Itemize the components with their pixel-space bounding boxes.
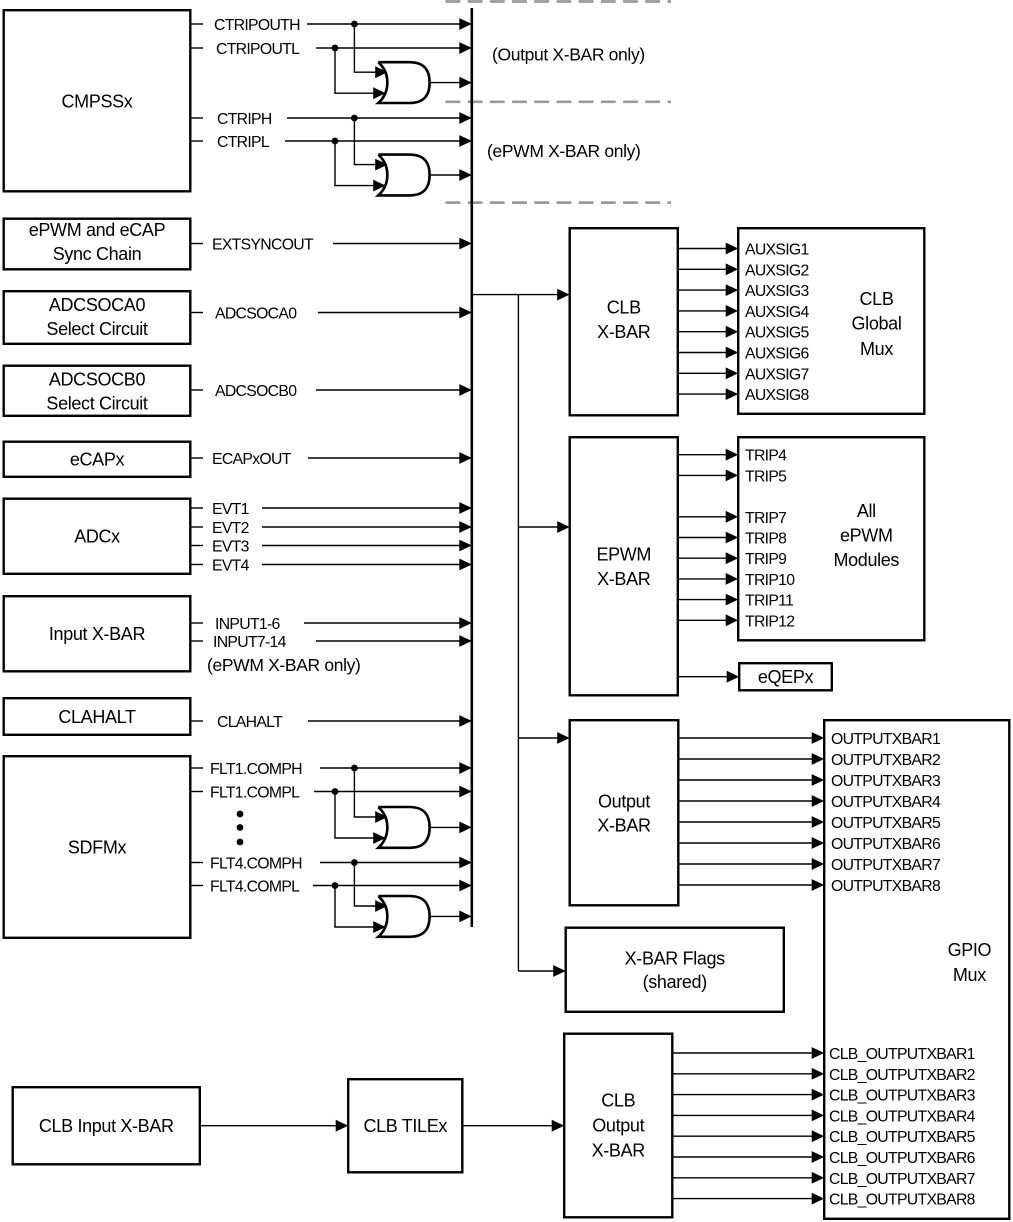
wire OUTPUTXBAR3 xyxy=(680,775,824,785)
or-gate G2 (CTRIPH+CTRIPL) xyxy=(378,155,429,196)
svg-text:CTRIPL: CTRIPL xyxy=(217,134,270,151)
wire EVT3 from source block to bus xyxy=(192,540,471,550)
svg-text:TRIP7: TRIP7 xyxy=(745,510,786,527)
block ADCSOCB0 Select Circuit xyxy=(4,366,191,416)
svg-text:CLB Input X-BAR: CLB Input X-BAR xyxy=(39,1116,174,1136)
svg-text:FLT4.COMPL: FLT4.COMPL xyxy=(210,879,300,896)
svg-text:EVT1: EVT1 xyxy=(212,501,250,518)
svg-text:OUTPUTXBAR4: OUTPUTXBAR4 xyxy=(831,794,941,811)
wire CLB_OUTPUTXBAR4 xyxy=(674,1110,824,1120)
wire CLAHALT from source block to bus xyxy=(192,716,471,726)
dashed region separator 2 xyxy=(446,100,672,103)
wire OUTPUTXBAR6 xyxy=(680,838,824,848)
wire FLT4.COMPL from source block to bus xyxy=(192,880,471,890)
svg-text:EPWM: EPWM xyxy=(596,544,651,564)
svg-text:(ePWM X-BAR only): (ePWM X-BAR only) xyxy=(207,655,361,675)
svg-text:eCAPx: eCAPx xyxy=(70,450,125,470)
svg-text:ADCSOCB0: ADCSOCB0 xyxy=(215,383,297,400)
or-gate G4 (FLT4.COMPH+FLT4.COMPL) xyxy=(378,896,429,937)
wire INPUT1-6 from source block to bus xyxy=(192,618,471,628)
wire EXTSYNCOUT from source block to bus xyxy=(192,238,471,248)
svg-text:X-BAR: X-BAR xyxy=(597,322,651,342)
svg-text:CLB_OUTPUTXBAR1: CLB_OUTPUTXBAR1 xyxy=(829,1046,976,1063)
wire OUTPUTXBAR1 xyxy=(680,733,824,743)
svg-text:OUTPUTXBAR3: OUTPUTXBAR3 xyxy=(831,773,941,790)
svg-text:CLAHALT: CLAHALT xyxy=(217,714,283,731)
svg-text:CLAHALT: CLAHALT xyxy=(58,707,136,727)
wire G2 (CTRIPH+CTRIPL) input 1 xyxy=(354,118,387,170)
wire TRIP12 xyxy=(679,615,737,625)
svg-text:CLB_OUTPUTXBAR8: CLB_OUTPUTXBAR8 xyxy=(829,1192,976,1209)
svg-text:(Output X-BAR only): (Output X-BAR only) xyxy=(492,44,645,64)
svg-text:EVT3: EVT3 xyxy=(212,539,250,556)
wire CLB_OUTPUTXBAR1 xyxy=(674,1048,824,1058)
wire G1 (CTRIPOUTH+CTRIPOUTL) input 1 xyxy=(354,24,387,77)
svg-text:CLB_OUTPUTXBAR4: CLB_OUTPUTXBAR4 xyxy=(829,1108,976,1125)
block All ePWM Modules xyxy=(738,437,924,640)
wire TRIP5 xyxy=(679,470,737,480)
svg-text:AUXSIG3: AUXSIG3 xyxy=(745,283,809,300)
or-gate G1 (CTRIPOUTH+CTRIPOUTL) xyxy=(378,62,429,103)
block CLB Output X-BAR xyxy=(564,1034,672,1218)
svg-text:Global: Global xyxy=(852,314,902,334)
svg-text:EVT4: EVT4 xyxy=(212,558,250,575)
wire EVT4 from source block to bus xyxy=(192,559,471,569)
svg-text:CLB_OUTPUTXBAR3: CLB_OUTPUTXBAR3 xyxy=(829,1088,976,1105)
wire AUXSIG3 xyxy=(679,285,737,295)
svg-text:Select Circuit: Select Circuit xyxy=(46,319,147,339)
block CLAHALT xyxy=(4,698,191,735)
svg-text:AUXSIG4: AUXSIG4 xyxy=(745,304,809,321)
svg-text:TRIP10: TRIP10 xyxy=(745,572,795,589)
wire CTRIPOUTH from source block to bus xyxy=(192,19,471,29)
wire G3 (FLT1.COMPH+FLT1.COMPL) input 1 xyxy=(354,768,387,822)
block Input X-BAR xyxy=(4,596,191,671)
wire TRIP4 xyxy=(679,450,737,460)
wire EPWM X-BAR to eQEPx xyxy=(679,672,738,682)
block X-BAR Flags (shared) xyxy=(566,928,784,1012)
svg-text:GPIO: GPIO xyxy=(948,940,992,960)
block ADCx xyxy=(4,499,191,574)
wire FLT1.COMPH from source block to bus xyxy=(192,763,471,773)
svg-text:AUXSIG7: AUXSIG7 xyxy=(745,366,809,383)
wire CLB Input X-BAR to CLB TILEx xyxy=(201,1121,347,1131)
junction dot on FLT4.COMPL xyxy=(332,882,339,889)
svg-text:CLB_OUTPUTXBAR5: CLB_OUTPUTXBAR5 xyxy=(829,1129,976,1146)
svg-text:eQEPx: eQEPx xyxy=(758,667,814,687)
wire TRIP9 xyxy=(679,553,737,563)
svg-text:AUXSIG2: AUXSIG2 xyxy=(745,262,809,279)
svg-text:OUTPUTXBAR6: OUTPUTXBAR6 xyxy=(831,836,941,853)
block CLB TILEx xyxy=(348,1079,462,1172)
or-gate G3 (FLT1.COMPH+FLT1.COMPL) xyxy=(378,807,429,848)
wire OUTPUTXBAR2 xyxy=(680,754,824,764)
svg-text:TRIP4: TRIP4 xyxy=(745,448,787,465)
svg-text:CTRIPOUTH: CTRIPOUTH xyxy=(214,17,300,34)
svg-text:CLB: CLB xyxy=(860,289,894,309)
svg-text:SDFMx: SDFMx xyxy=(68,837,127,857)
svg-text:Output: Output xyxy=(598,791,650,811)
block SDFMx xyxy=(4,756,191,938)
wire feeder vertical trunk xyxy=(517,295,519,971)
block CMPSSx xyxy=(4,10,191,191)
wire ECAPxOUT from source block to bus xyxy=(192,453,471,463)
svg-text:CMPSSx: CMPSSx xyxy=(62,92,133,112)
wire G1 (CTRIPOUTH+CTRIPOUTL) input 2 xyxy=(334,48,384,98)
junction dot on FLT4.COMPH xyxy=(351,859,358,866)
svg-text:ADCSOCA0: ADCSOCA0 xyxy=(49,295,146,315)
wire G4 (FLT4.COMPH+FLT4.COMPL) output to bus xyxy=(430,911,471,921)
svg-text:X-BAR: X-BAR xyxy=(597,569,651,589)
svg-text:Output: Output xyxy=(592,1116,644,1136)
svg-text:TRIP9: TRIP9 xyxy=(745,551,787,568)
wire G3 (FLT1.COMPH+FLT1.COMPL) output to bus xyxy=(430,822,471,832)
svg-text:OUTPUTXBAR7: OUTPUTXBAR7 xyxy=(831,857,940,874)
svg-text:CLB_OUTPUTXBAR6: CLB_OUTPUTXBAR6 xyxy=(829,1150,976,1167)
svg-text:TRIP11: TRIP11 xyxy=(745,593,794,610)
wire G2 (CTRIPH+CTRIPL) output to bus xyxy=(430,170,471,180)
dashed region separator 1 xyxy=(446,0,672,3)
svg-text:FLT4.COMPH: FLT4.COMPH xyxy=(210,856,302,873)
wire AUXSIG2 xyxy=(679,264,737,274)
wire EVT1 from source block to bus xyxy=(192,503,471,513)
wire TRIP7 xyxy=(679,512,737,522)
svg-text:OUTPUTXBAR1: OUTPUTXBAR1 xyxy=(831,731,941,748)
svg-text:EVT2: EVT2 xyxy=(212,520,249,537)
wire AUXSIG8 xyxy=(679,389,737,399)
wire ADCSOCA0 from source block to bus xyxy=(192,307,471,317)
wire G3 (FLT1.COMPH+FLT1.COMPL) input 2 xyxy=(334,792,384,844)
junction dot on CTRIPL xyxy=(332,138,339,145)
wire CLB_OUTPUTXBAR7 xyxy=(674,1173,824,1183)
block GPIO Mux xyxy=(824,720,1009,1219)
wire G2 (CTRIPH+CTRIPL) input 2 xyxy=(334,141,384,191)
svg-text:EXTSYNCOUT: EXTSYNCOUT xyxy=(212,237,314,254)
svg-text:(shared): (shared) xyxy=(643,972,707,992)
svg-text:Input X-BAR: Input X-BAR xyxy=(49,624,146,644)
svg-text:AUXSIG8: AUXSIG8 xyxy=(745,387,809,404)
svg-text:Modules: Modules xyxy=(834,550,900,570)
svg-text:ADCSOCB0: ADCSOCB0 xyxy=(49,370,146,390)
wire CLB TILEx to CLB Output X-BAR xyxy=(464,1121,564,1131)
svg-text:CLB_OUTPUTXBAR2: CLB_OUTPUTXBAR2 xyxy=(829,1067,975,1084)
wire EVT2 from source block to bus xyxy=(192,522,471,532)
wire OUTPUTXBAR5 xyxy=(680,817,824,827)
svg-text:(ePWM X-BAR only): (ePWM X-BAR only) xyxy=(487,141,641,161)
wire feeder to Output X-BAR xyxy=(518,733,568,743)
svg-text:Mux: Mux xyxy=(953,965,986,985)
wire G1 (CTRIPOUTH+CTRIPOUTL) output to bus xyxy=(430,78,471,88)
junction dot on FLT1.COMPL xyxy=(332,788,339,795)
svg-text:All: All xyxy=(857,501,876,521)
svg-text:ePWM and eCAP: ePWM and eCAP xyxy=(29,220,166,240)
junction dot on CTRIPH xyxy=(351,115,358,122)
wire CLB_OUTPUTXBAR8 xyxy=(674,1194,824,1204)
svg-text:X-BAR: X-BAR xyxy=(592,1141,646,1161)
svg-text:Sync Chain: Sync Chain xyxy=(53,244,142,264)
wire FLT4.COMPH from source block to bus xyxy=(192,857,471,867)
svg-text:OUTPUTXBAR2: OUTPUTXBAR2 xyxy=(831,752,940,769)
block CLB X-BAR xyxy=(570,228,678,415)
block CLB Input X-BAR xyxy=(13,1087,200,1164)
wire CLB_OUTPUTXBAR2 xyxy=(674,1069,824,1079)
wire FLT1.COMPL from source block to bus xyxy=(192,786,471,796)
wire AUXSIG4 xyxy=(679,306,737,316)
svg-text:ADCx: ADCx xyxy=(74,527,120,547)
svg-text:ECAPxOUT: ECAPxOUT xyxy=(212,451,292,468)
svg-text:AUXSIG5: AUXSIG5 xyxy=(745,325,809,342)
wire feeder to X-BAR Flags xyxy=(518,966,564,976)
svg-text:AUXSIG1: AUXSIG1 xyxy=(745,242,809,259)
svg-text:Select Circuit: Select Circuit xyxy=(46,393,147,413)
block Output X-BAR xyxy=(570,720,679,905)
wire INPUT7-14 from source block to bus xyxy=(192,636,471,646)
wire OUTPUTXBAR8 xyxy=(680,880,824,890)
wire TRIP10 xyxy=(679,574,737,584)
junction dot on FLT1.COMPH xyxy=(351,765,358,772)
svg-text:CTRIPOUTL: CTRIPOUTL xyxy=(216,41,300,58)
svg-text:CLB_OUTPUTXBAR7: CLB_OUTPUTXBAR7 xyxy=(829,1171,975,1188)
block CLB Global Mux xyxy=(738,228,924,414)
wire TRIP8 xyxy=(679,532,737,542)
wire AUXSIG7 xyxy=(679,368,737,378)
svg-text:CLB TILEx: CLB TILEx xyxy=(363,1116,447,1136)
junction dot on CTRIPOUTL xyxy=(332,45,339,52)
wire CLB_OUTPUTXBAR3 xyxy=(674,1090,824,1100)
junction dot on CTRIPOUTH xyxy=(351,21,358,28)
svg-text:ePWM: ePWM xyxy=(840,525,893,545)
svg-text:TRIP8: TRIP8 xyxy=(745,531,787,548)
wire AUXSIG5 xyxy=(679,327,737,337)
svg-text:OUTPUTXBAR8: OUTPUTXBAR8 xyxy=(831,878,941,895)
wire CTRIPL from source block to bus xyxy=(192,136,471,146)
wire TRIP11 xyxy=(679,595,737,605)
block ADCSOCA0 Select Circuit xyxy=(4,291,191,344)
svg-text:Mux: Mux xyxy=(860,339,893,359)
block ePWM and eCAP Sync Chain xyxy=(4,219,191,270)
block eCAPx xyxy=(4,442,191,477)
wire AUXSIG1 xyxy=(679,243,737,253)
svg-text:INPUT1-6: INPUT1-6 xyxy=(215,616,281,633)
wire CTRIPH from source block to bus xyxy=(192,113,471,123)
svg-text:TRIP5: TRIP5 xyxy=(745,468,787,485)
svg-text:FLT1.COMPL: FLT1.COMPL xyxy=(210,785,300,802)
wire CLB_OUTPUTXBAR6 xyxy=(674,1152,824,1162)
wire bus to CLB X-BAR xyxy=(472,290,569,300)
svg-text:X-BAR: X-BAR xyxy=(597,816,651,836)
svg-text:CLB: CLB xyxy=(607,297,641,317)
wire CTRIPOUTL from source block to bus xyxy=(192,43,471,53)
wire ADCSOCB0 from source block to bus xyxy=(192,385,471,395)
wire OUTPUTXBAR7 xyxy=(680,859,824,869)
svg-text:OUTPUTXBAR5: OUTPUTXBAR5 xyxy=(831,815,941,832)
svg-text:FLT1.COMPH: FLT1.COMPH xyxy=(210,761,302,778)
dashed region separator 3 xyxy=(446,201,672,204)
wire G4 (FLT4.COMPH+FLT4.COMPL) input 2 xyxy=(334,886,384,933)
svg-text:ADCSOCA0: ADCSOCA0 xyxy=(215,306,297,323)
svg-text:TRIP12: TRIP12 xyxy=(745,613,794,630)
wire AUXSIG6 xyxy=(679,347,737,357)
svg-text:CTRIPH: CTRIPH xyxy=(217,111,272,128)
svg-text:CLB: CLB xyxy=(601,1091,635,1111)
block eQEPx xyxy=(739,663,832,690)
wire CLB_OUTPUTXBAR5 xyxy=(674,1131,824,1141)
block EPWM X-BAR xyxy=(570,437,678,695)
node: X-BAR input bus (vertical collector line) xyxy=(470,8,473,927)
wire feeder to EPWM X-BAR xyxy=(518,522,568,532)
wire G4 (FLT4.COMPH+FLT4.COMPL) input 1 xyxy=(354,863,387,912)
svg-text:X-BAR Flags: X-BAR Flags xyxy=(625,948,726,968)
svg-text:INPUT7-14: INPUT7-14 xyxy=(213,634,287,651)
svg-text:AUXSIG6: AUXSIG6 xyxy=(745,346,809,363)
wire OUTPUTXBAR4 xyxy=(680,796,824,806)
ellipsis dots (FLT2..FLT3 omitted) xyxy=(237,811,244,846)
